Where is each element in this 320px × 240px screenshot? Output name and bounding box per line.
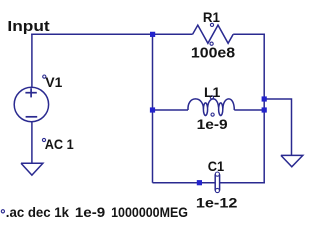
anchor marker R1 top [210, 23, 213, 26]
wire middle vertical (152.5) from top to cap row [152, 34, 154, 182]
wire V1 bottom to ground [31, 122, 33, 164]
wire top horizontal left segment (Input node to R1) [31, 33, 192, 35]
svg-text:L1: L1 [204, 84, 221, 100]
V1 plus sign [25, 88, 36, 97]
wire right vertical (264) from top to cap row [263, 34, 265, 184]
anchor marker V1 label [43, 75, 46, 78]
anchor marker L1 top [210, 96, 213, 99]
anchor marker 100e8 bottom [210, 42, 213, 45]
svg-text:1e-9: 1e-9 [75, 204, 106, 220]
resistor R1 [193, 25, 234, 43]
svg-text:R1: R1 [203, 9, 220, 25]
svg-text:AC 1: AC 1 [45, 136, 74, 152]
junction node at inductor left [150, 107, 155, 112]
wire R1 right lead to top-right corner [233, 33, 265, 35]
wire cap row left lead [153, 182, 216, 184]
wire top-left vertical drop to V1 [31, 34, 33, 88]
ground left [21, 163, 43, 175]
wire inductor row left lead [153, 109, 189, 111]
anchor marker 1e-9 bottom [211, 113, 214, 116]
svg-text:1000000MEG: 1000000MEG [111, 204, 188, 220]
junction node at capacitor left [197, 180, 202, 185]
anchor marker C1 top (cap plate top) [215, 172, 219, 176]
capacitor C1 [215, 174, 219, 190]
svg-text:.ac dec 1k: .ac dec 1k [6, 204, 69, 220]
svg-text:V1: V1 [45, 74, 62, 90]
junction node at right branch (ground tap) [262, 96, 267, 101]
svg-text:100e8: 100e8 [191, 45, 235, 61]
svg-text:C1: C1 [208, 158, 225, 174]
svg-text:1e-12: 1e-12 [196, 194, 238, 210]
voltage source V1 circle [14, 87, 48, 121]
anchor marker 1e-12 bottom (cap plate bottom) [215, 188, 219, 192]
inductor L1 [188, 99, 234, 116]
ground right [281, 155, 303, 166]
wire branch to right ground [264, 99, 291, 155]
junction node at inductor right [262, 107, 267, 112]
wire cap row right lead [220, 182, 265, 184]
V1 minus sign [26, 116, 38, 118]
wire inductor row right lead [234, 109, 265, 111]
svg-text:1e-9: 1e-9 [197, 116, 228, 132]
anchor marker AC 1 label [42, 138, 45, 141]
anchor marker .ac directive [1, 210, 4, 213]
junction node at Input/R1 branch [150, 32, 155, 37]
svg-text:Input: Input [7, 18, 49, 35]
